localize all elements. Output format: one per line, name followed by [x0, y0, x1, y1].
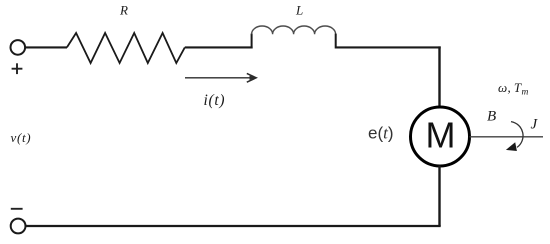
bottom wire — [25, 225, 440, 227]
svg-text:J: J — [531, 117, 539, 133]
terminal top-left (+) — [10, 40, 25, 55]
svg-text:R: R — [119, 3, 128, 18]
svg-text:i(t): i(t) — [204, 92, 226, 109]
wire from + terminal to resistor — [25, 46, 67, 48]
minus sign — [11, 208, 23, 210]
svg-text:v(t): v(t) — [11, 130, 32, 145]
wire inductor to top-right corner — [336, 46, 441, 48]
svg-text:B: B — [487, 109, 496, 125]
wire motor bottom to bottom wire — [438, 166, 440, 227]
wire vertical to motor top — [438, 46, 440, 107]
resistor R — [67, 33, 185, 63]
svg-text:ω, Tm: ω, Tm — [498, 80, 529, 98]
motor M circle — [411, 107, 470, 166]
current arrow i(t) — [185, 73, 256, 82]
inductor L — [252, 26, 336, 48]
svg-text:M: M — [426, 115, 456, 156]
plus sign — [12, 63, 23, 74]
rotation arrowhead — [506, 142, 517, 151]
svg-text:e(t): e(t) — [368, 123, 394, 142]
terminal bottom-left (-) — [11, 219, 26, 234]
svg-text:L: L — [295, 3, 303, 18]
shaft line — [470, 136, 544, 138]
wire resistor to inductor — [185, 46, 253, 48]
rotation arrow arc — [511, 122, 523, 148]
